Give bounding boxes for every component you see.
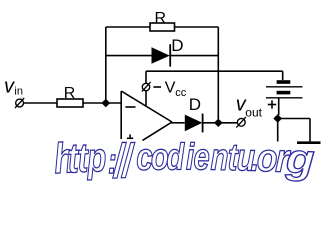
node battery junction xyxy=(273,114,282,122)
svg-text:cc: cc xyxy=(175,87,187,99)
wire xyxy=(106,55,152,57)
label vin xyxy=(4,76,23,98)
svg-text:in: in xyxy=(14,85,23,97)
terminal Vin xyxy=(15,98,24,108)
wire xyxy=(171,122,185,124)
diode D2 xyxy=(185,114,203,133)
svg-text:g: g xyxy=(284,136,316,183)
terminal Vout xyxy=(236,117,246,128)
wire xyxy=(277,119,279,142)
wire xyxy=(146,70,283,72)
node A junction xyxy=(101,99,110,107)
node output junction xyxy=(214,119,223,127)
wire xyxy=(145,91,147,106)
battery B1 xyxy=(266,71,303,115)
svg-text:v: v xyxy=(4,76,15,98)
resistor R2 xyxy=(150,23,175,31)
wire xyxy=(106,26,219,28)
wire xyxy=(278,118,310,120)
svg-text:p: p xyxy=(85,134,107,181)
wire xyxy=(105,27,107,103)
wire xyxy=(170,55,218,57)
terminal -Vcc xyxy=(142,82,151,92)
label vout xyxy=(236,94,263,120)
svg-text:R: R xyxy=(64,85,76,102)
label -Vcc xyxy=(153,80,186,100)
wire xyxy=(83,102,122,104)
wire xyxy=(203,122,238,124)
ground xyxy=(297,119,321,143)
wire xyxy=(24,102,58,104)
svg-text:R: R xyxy=(155,10,167,27)
svg-text:D: D xyxy=(171,36,183,55)
wire xyxy=(145,71,147,83)
resistor R1 xyxy=(57,99,83,107)
svg-text:out: out xyxy=(245,106,262,120)
svg-text:V: V xyxy=(165,80,176,97)
svg-text:n: n xyxy=(210,137,229,179)
svg-text:D: D xyxy=(189,95,201,114)
diode D1 xyxy=(152,44,171,66)
op-amp U1 xyxy=(121,91,172,140)
watermark text codientu xyxy=(53,134,316,188)
svg-text:d: d xyxy=(166,137,184,178)
svg-text:/: / xyxy=(120,134,137,187)
wire xyxy=(217,27,219,123)
svg-text:e: e xyxy=(193,137,209,178)
